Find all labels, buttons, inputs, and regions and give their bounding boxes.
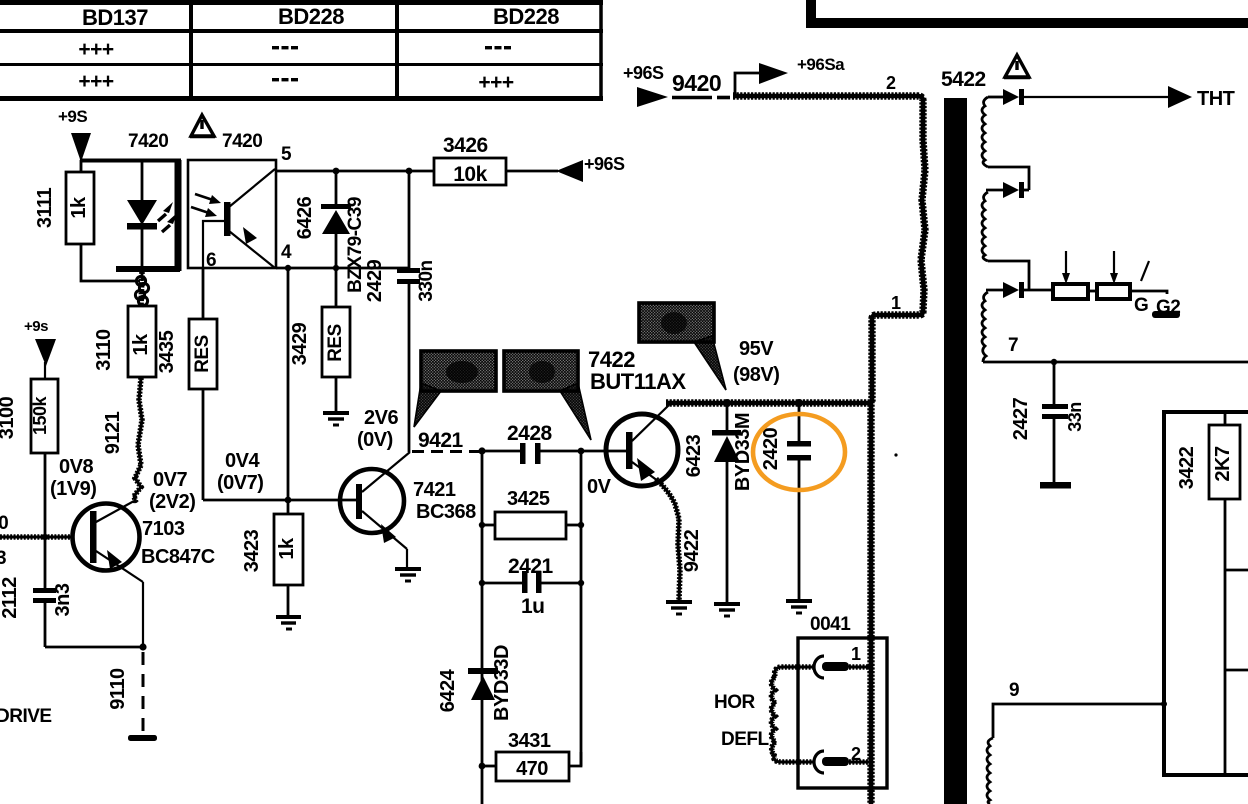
svg-text:BUT11AX: BUT11AX — [590, 369, 686, 394]
svg-text:2429: 2429 — [364, 259, 386, 302]
svg-text:+++: +++ — [478, 71, 514, 94]
transistor 7421 BC368 — [340, 452, 410, 567]
svg-text:7420: 7420 — [128, 131, 168, 152]
wire 9110 (dashed) — [142, 652, 145, 735]
wire vertical pin4 to 0V4 node — [287, 268, 290, 500]
svg-text:9422: 9422 — [681, 529, 703, 572]
svg-text:(98V): (98V) — [733, 364, 779, 386]
svg-text:2112: 2112 — [0, 577, 21, 619]
svg-text:4: 4 — [281, 242, 292, 263]
capacitor 2429 330n — [364, 171, 437, 452]
arrow +96S — [637, 87, 668, 107]
svg-text:3100: 3100 — [0, 396, 18, 439]
svg-text:BYD33D: BYD33D — [491, 645, 513, 721]
callout box 3 (redacted, L?) — [639, 303, 726, 390]
phototransistor — [191, 169, 275, 268]
arrow +96Sa — [759, 63, 788, 84]
svg-text:(2V2): (2V2) — [149, 491, 195, 513]
wire pin7 line — [983, 361, 1248, 364]
box (bottom-right block) — [1164, 412, 1248, 775]
svg-text:7: 7 — [1008, 335, 1018, 356]
svg-text:9420: 9420 — [672, 70, 721, 96]
wire — [988, 261, 1029, 290]
svg-text:3435: 3435 — [156, 330, 178, 373]
svg-text:5: 5 — [281, 144, 292, 165]
diode 6424 BYD33D — [437, 645, 513, 721]
LED (opto) — [127, 160, 177, 281]
svg-text:BC368: BC368 — [416, 501, 476, 523]
wire 0V4 node — [203, 499, 358, 502]
svg-text:3425: 3425 — [507, 488, 550, 510]
svg-text:(0V7): (0V7) — [217, 472, 263, 494]
svg-text:20: 20 — [0, 513, 8, 534]
opto-coupler 7420 LED box — [80, 160, 181, 271]
svg-text:2420: 2420 — [760, 427, 782, 470]
ground (3429) — [323, 413, 349, 425]
capacitor 2428 — [482, 422, 628, 464]
wire to +96Sa — [735, 73, 760, 96]
wire drive base (highlighted) — [0, 534, 74, 540]
highlight circle (orange) around 2420 — [753, 414, 845, 490]
wire to G — [1130, 291, 1167, 294]
wire pin4 node — [276, 267, 409, 270]
resistor 3100 150k — [0, 379, 58, 540]
wire pin 9 — [993, 704, 1164, 738]
wire right column — [580, 451, 583, 766]
svg-text:+96Sa: +96Sa — [797, 55, 845, 74]
svg-text:7103: 7103 — [142, 518, 185, 540]
svg-text:7421: 7421 — [413, 479, 456, 501]
resistor 3110 1k — [93, 306, 156, 377]
svg-text:+++: +++ — [78, 70, 114, 93]
callout box 2 (redacted) — [504, 351, 591, 440]
warning symbol — [1004, 55, 1030, 78]
opto-coupler 7420 phototransistor box — [188, 160, 276, 268]
svg-text:BD228: BD228 — [493, 4, 559, 29]
capacitor 2112 3n3 — [0, 537, 74, 647]
svg-text:0V4: 0V4 — [225, 450, 260, 472]
svg-text:1k: 1k — [276, 537, 298, 560]
svg-text:10k: 10k — [453, 163, 487, 186]
resistor 3431 470 — [479, 730, 581, 781]
wire highlighted vertical to HOR DEFL connector — [867, 401, 874, 804]
connector pin 1 — [814, 656, 849, 678]
svg-text:1k: 1k — [68, 196, 90, 219]
wire — [988, 167, 1029, 190]
svg-text:330n: 330n — [416, 260, 437, 301]
svg-text:3111: 3111 — [34, 187, 56, 228]
svg-text:2428: 2428 — [507, 422, 553, 445]
svg-text:RES: RES — [192, 335, 213, 373]
resistor 3423 1k — [241, 500, 303, 616]
svg-text:3431: 3431 — [508, 730, 551, 752]
svg-text:9121: 9121 — [102, 411, 124, 454]
svg-text:1: 1 — [891, 293, 901, 313]
capacitor 2421 1u — [479, 555, 584, 618]
wire coil squiggle (LED to 3110, highlighted) — [135, 272, 148, 306]
svg-text:2: 2 — [886, 73, 896, 93]
svg-text:BD228: BD228 — [278, 4, 344, 29]
svg-text:2427: 2427 — [1010, 397, 1032, 440]
svg-text:2421: 2421 — [508, 555, 554, 578]
thick frame corner top-right — [806, 0, 816, 28]
svg-text:7420: 7420 — [222, 131, 262, 152]
svg-text:DRIVE: DRIVE — [0, 706, 52, 727]
svg-text:150k: 150k — [30, 395, 50, 435]
arrow THT — [1168, 86, 1192, 108]
diode D3 (secondary, to G/G2) — [986, 282, 1052, 298]
table: comparison table BD137/BD228 — [0, 2, 603, 99]
speck — [894, 453, 897, 456]
connector 0041 — [798, 614, 887, 788]
ground (6423) — [714, 604, 740, 616]
svg-text:3110: 3110 — [93, 329, 115, 371]
svg-text:BD137: BD137 — [82, 5, 148, 30]
transformer winding (bottom left, pin 9) — [987, 738, 993, 804]
svg-text:3426: 3426 — [443, 134, 488, 157]
transformer secondary winding S2 — [982, 192, 988, 261]
svg-text:+++: +++ — [78, 38, 114, 61]
svg-text:0V8: 0V8 — [59, 456, 93, 478]
capacitor 2427 33n — [1010, 362, 1085, 489]
svg-text:470: 470 — [516, 758, 548, 780]
node junction at 2427 — [1051, 359, 1057, 365]
resistor 3422 2K7 — [1176, 412, 1248, 775]
svg-text:6424: 6424 — [437, 668, 459, 712]
svg-text:3429: 3429 — [289, 322, 311, 365]
svg-text:HOR: HOR — [714, 692, 756, 713]
capacitor 2420 — [760, 403, 811, 601]
svg-text:3423: 3423 — [241, 529, 263, 572]
transistor 7103 BC847C — [73, 501, 144, 647]
svg-text:2V6: 2V6 — [364, 407, 398, 429]
svg-text:3n3: 3n3 — [52, 583, 74, 616]
ground (7421 emitter) — [395, 569, 421, 581]
svg-text:0V7: 0V7 — [153, 469, 187, 491]
transformer secondary winding S3 — [982, 292, 988, 362]
diode D2 (secondary) — [986, 182, 1029, 198]
svg-text:3: 3 — [0, 548, 6, 569]
wire highlighted primary path — [733, 96, 925, 402]
diode D1 (secondary, to THT) — [988, 89, 1024, 105]
wire 9422 (highlighted, emitter to ground) — [656, 479, 680, 600]
svg-text:0V: 0V — [587, 476, 612, 498]
svg-text:33n: 33n — [1065, 402, 1085, 432]
svg-text:0041: 0041 — [810, 614, 851, 635]
svg-text:9110: 9110 — [107, 668, 129, 710]
focus resistor A (adjustable) — [1053, 284, 1088, 299]
resistor 3425 — [479, 488, 584, 539]
resistor 3429 RES — [289, 307, 350, 412]
callout box 1 (redacted) — [414, 351, 496, 427]
ground (3423) — [276, 617, 301, 629]
ground (2420) — [786, 601, 812, 613]
svg-text:+9s: +9s — [24, 318, 48, 335]
svg-text:5422: 5422 — [941, 68, 986, 91]
wire 9121 (highlighted zigzag) — [134, 378, 142, 503]
wire to THT — [1024, 96, 1169, 98]
svg-text:(0V): (0V) — [357, 429, 393, 451]
svg-text:6423: 6423 — [683, 434, 705, 477]
svg-text:BC847C: BC847C — [141, 546, 215, 568]
svg-text:(1V9): (1V9) — [50, 478, 96, 500]
transistor 7422 BUT11AX — [606, 405, 678, 486]
warning symbol — [190, 115, 215, 137]
svg-text:THT: THT — [1197, 88, 1235, 110]
wire left column — [481, 451, 484, 804]
wire pin5 node — [276, 170, 435, 173]
wire emitter bottom — [45, 646, 143, 649]
svg-text:+9S: +9S — [58, 107, 87, 126]
transformer secondary winding S1 — [982, 97, 988, 167]
svg-text:+96S: +96S — [584, 154, 625, 174]
resistor 3111 1k — [34, 160, 140, 281]
svg-text:+96S: +96S — [623, 63, 664, 83]
svg-text:G: G — [1134, 295, 1148, 316]
svg-text:2K7: 2K7 — [1212, 446, 1234, 482]
connector pin 2 — [814, 751, 849, 773]
svg-text:9421: 9421 — [418, 429, 464, 452]
resistor 3435 RES — [156, 268, 217, 500]
svg-text:6426: 6426 — [294, 196, 316, 239]
svg-text:BZX79-C39: BZX79-C39 — [345, 197, 366, 293]
diode 6423 BYD33M — [683, 403, 754, 603]
ground (9422) — [666, 602, 692, 614]
wire yoke loop (highlighted) HOR DEFL — [849, 664, 871, 670]
svg-text:3422: 3422 — [1176, 446, 1198, 489]
transformer 5422 core — [944, 98, 967, 804]
arrow +96S (right) — [556, 160, 583, 182]
svg-text:6: 6 — [206, 250, 216, 271]
svg-text:RES: RES — [325, 324, 346, 362]
svg-text:1: 1 — [851, 644, 861, 664]
svg-text:1k: 1k — [130, 333, 152, 356]
focus resistor B (adjustable) — [1088, 290, 1097, 293]
svg-text:95V: 95V — [739, 338, 774, 360]
svg-text:DEFL: DEFL — [721, 729, 770, 750]
svg-text:9: 9 — [1009, 680, 1019, 701]
wire highlighted 95V line to transistor 7422 collector — [666, 399, 872, 406]
zener diode 6426 BZX79-C39 — [294, 171, 366, 307]
resistor 3426 10k — [434, 134, 558, 186]
svg-text:1u: 1u — [521, 595, 545, 618]
